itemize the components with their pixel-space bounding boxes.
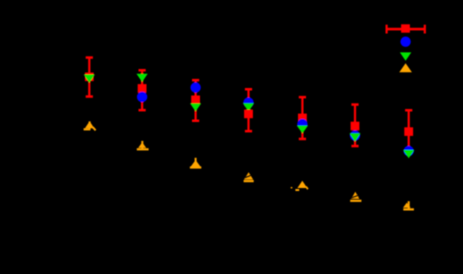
group 5 error bar xyxy=(299,96,306,140)
legend blue circle xyxy=(400,37,410,47)
group 5 green triangle xyxy=(297,126,308,134)
group 2 blue circle xyxy=(137,92,147,102)
group 5 orange point xyxy=(291,181,308,191)
group 6 error bar xyxy=(351,103,358,147)
group 6 blue circle xyxy=(350,130,360,140)
group 4 green triangle xyxy=(243,103,254,111)
group 2 error bar xyxy=(139,69,146,111)
group 7 blue circle xyxy=(404,146,414,156)
group 2 red square xyxy=(138,84,147,93)
group 4 error bar xyxy=(245,88,252,132)
group 3 error bar xyxy=(192,79,199,122)
group 3 blue circle xyxy=(190,82,200,92)
group 5 blue circle xyxy=(297,119,307,129)
group 6 red square xyxy=(351,122,360,131)
group 1 blue circle (hidden behind square) xyxy=(85,73,93,81)
group 7 error bar xyxy=(405,109,412,152)
group 7 green triangle xyxy=(403,150,414,158)
group 1 red square xyxy=(85,73,94,82)
group 1 orange point xyxy=(84,121,96,130)
group 4 red square xyxy=(244,110,253,119)
group 1 green triangle xyxy=(84,75,95,83)
group 3 red square xyxy=(191,96,200,105)
group 2 orange point xyxy=(137,141,149,151)
legend red entry: square with horizontal error bar xyxy=(386,24,426,33)
group 3 green triangle xyxy=(190,103,201,111)
group 6 green triangle xyxy=(349,133,360,141)
group 4 blue circle xyxy=(243,97,253,107)
group 5 red square xyxy=(298,114,307,123)
group 3 orange point xyxy=(190,158,201,169)
group 7 orange point xyxy=(403,201,414,210)
legend green triangle xyxy=(400,52,411,60)
group 4 orange point xyxy=(244,172,254,182)
group 2 green triangle xyxy=(137,74,148,82)
group 6 orange point xyxy=(350,192,361,202)
group 1 error bar xyxy=(86,56,93,98)
group 7 red square xyxy=(404,127,413,136)
legend orange triangle xyxy=(399,63,412,72)
